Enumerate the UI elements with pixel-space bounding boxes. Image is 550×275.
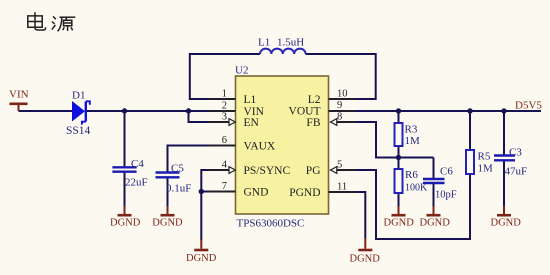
node C4 branch (122, 108, 127, 113)
svg-text:10pF: 10pF (435, 190, 457, 201)
svg-text:1M: 1M (405, 135, 421, 147)
svg-text:2: 2 (222, 101, 227, 112)
svg-text:R3: R3 (405, 124, 418, 136)
pin 10 (329, 98, 356, 100)
title 电源 (28, 12, 76, 31)
svg-text:C5: C5 (171, 163, 184, 175)
ground DGND under C4 (110, 206, 141, 229)
svg-text:VOUT: VOUT (289, 106, 321, 118)
capacitor C4 (112, 158, 147, 189)
svg-text:DGND: DGND (110, 218, 141, 229)
svg-text:VAUX: VAUX (244, 141, 276, 153)
svg-text:R5: R5 (478, 151, 491, 163)
op IC U2 body (235, 65, 329, 230)
wire R6 bottom (398, 193, 400, 206)
node FB divider (396, 155, 401, 160)
svg-text:DGND: DGND (186, 253, 217, 264)
svg-text:5: 5 (337, 160, 342, 171)
svg-text:DGND: DGND (152, 218, 183, 229)
resistor R6 (395, 169, 429, 194)
svg-text:TPS63060DSC: TPS63060DSC (237, 218, 305, 230)
wire FB net (355, 122, 434, 158)
node R5 top (467, 108, 472, 113)
svg-text:22uF: 22uF (125, 177, 148, 189)
svg-text:GND: GND (244, 187, 269, 199)
diode D1 (66, 90, 91, 138)
wire diode to IC pin2 (87, 110, 209, 112)
wire VOUT rail (355, 110, 541, 112)
node C3 top (501, 108, 506, 113)
svg-text:L1: L1 (258, 37, 270, 49)
svg-text:PGND: PGND (289, 187, 320, 199)
svg-text:7: 7 (222, 181, 227, 192)
svg-text:FB: FB (306, 117, 320, 129)
svg-text:EN: EN (244, 117, 260, 129)
svg-text:VIN: VIN (9, 89, 29, 101)
pin 2 (209, 110, 236, 112)
svg-text:U2: U2 (235, 65, 248, 77)
svg-text:PS/SYNC: PS/SYNC (244, 165, 291, 177)
wire IC gnd stub (200, 239, 202, 240)
wire R3 bottom (398, 146, 400, 158)
wire R6 top (398, 158, 400, 170)
wire C5 to gnd (167, 178, 169, 206)
wire L1 loop right (306, 54, 376, 99)
wire C3 to gnd (503, 161, 505, 206)
svg-text:SS14: SS14 (66, 125, 91, 137)
node R3 top (396, 108, 401, 113)
源 (53, 16, 56, 19)
svg-text:1M: 1M (478, 163, 494, 175)
wire C4 to gnd (124, 172, 126, 206)
svg-text:C3: C3 (509, 147, 522, 159)
ground DGND under C3 (491, 206, 522, 229)
svg-text:8: 8 (337, 112, 342, 123)
svg-text:1.5uH: 1.5uH (277, 37, 304, 49)
svg-text:6: 6 (222, 135, 227, 146)
wire GND pin7 (201, 192, 208, 240)
wire EN branch (189, 111, 210, 122)
wire PS/SYNC pin4 (201, 170, 208, 192)
svg-text:L1: L1 (244, 94, 257, 106)
svg-text:9: 9 (337, 100, 342, 111)
pin 3 (209, 121, 230, 123)
resistor R3 (395, 123, 421, 147)
svg-text:10: 10 (337, 89, 348, 100)
wire: VIN main horizontal (19, 54, 542, 240)
pin 4 input arrow (229, 167, 235, 174)
capacitor C6 (423, 166, 457, 201)
resistor R5 (466, 150, 493, 175)
pin 6 (209, 145, 236, 147)
svg-text:4: 4 (222, 160, 228, 171)
svg-text:DGND: DGND (384, 218, 415, 229)
pin 7 (209, 191, 236, 193)
svg-text:DGND: DGND (420, 218, 451, 229)
wire R3 top (398, 111, 400, 123)
svg-text:PG: PG (306, 165, 321, 177)
pin 11 (329, 191, 356, 193)
svg-text:DGND: DGND (491, 218, 522, 229)
ground DGND under C6 (420, 206, 451, 229)
pin 1 (209, 98, 236, 100)
wire C6 down (433, 158, 435, 180)
wire PGND pin11 (355, 192, 365, 238)
wire PG net (355, 170, 470, 239)
node EN branch (186, 108, 191, 113)
svg-text:R6: R6 (405, 169, 418, 181)
ground DGND under IC pin7 (186, 239, 217, 264)
svg-text:DGND: DGND (350, 254, 381, 265)
svg-text:D1: D1 (72, 90, 85, 102)
电 (35, 12, 46, 30)
capacitor C5 (156, 163, 192, 195)
svg-text:0.1uF: 0.1uF (166, 183, 191, 195)
power port VIN (9, 89, 29, 112)
pin 8 (337, 121, 356, 123)
ground DGND under PGND (350, 238, 381, 265)
svg-text:L2: L2 (308, 94, 321, 106)
svg-text:C6: C6 (440, 166, 453, 178)
capacitor C3 (494, 147, 527, 178)
svg-text:C4: C4 (131, 158, 144, 170)
svg-text:47uF: 47uF (505, 166, 528, 178)
wire C4 branch (124, 111, 126, 167)
wire L1 loop left (190, 54, 260, 99)
wire R5 top (469, 111, 471, 150)
junction dots (122, 108, 507, 194)
svg-text:1: 1 (222, 89, 227, 100)
wire VIN to diode (19, 110, 73, 112)
inductor L1 (258, 37, 306, 55)
IC U2 pin stubs (209, 99, 356, 192)
svg-text:D5V5: D5V5 (515, 100, 542, 112)
pin 8 input arrow (331, 119, 337, 126)
node GND pin4/7 (199, 189, 204, 194)
ground DGND under R6 (384, 206, 415, 229)
ground DGND under C5 (152, 206, 183, 229)
wire C3 branch (503, 111, 505, 156)
pin 3 input arrow (229, 119, 235, 126)
pin 5 input arrow (331, 167, 337, 174)
wire C5 to VAUX (168, 146, 210, 173)
svg-text:3: 3 (222, 112, 227, 123)
svg-text:11: 11 (337, 182, 347, 193)
wire C6 to gnd (433, 183, 435, 206)
pin 9 (329, 110, 356, 112)
pin 5 (337, 169, 356, 171)
pin 4 (209, 169, 230, 171)
